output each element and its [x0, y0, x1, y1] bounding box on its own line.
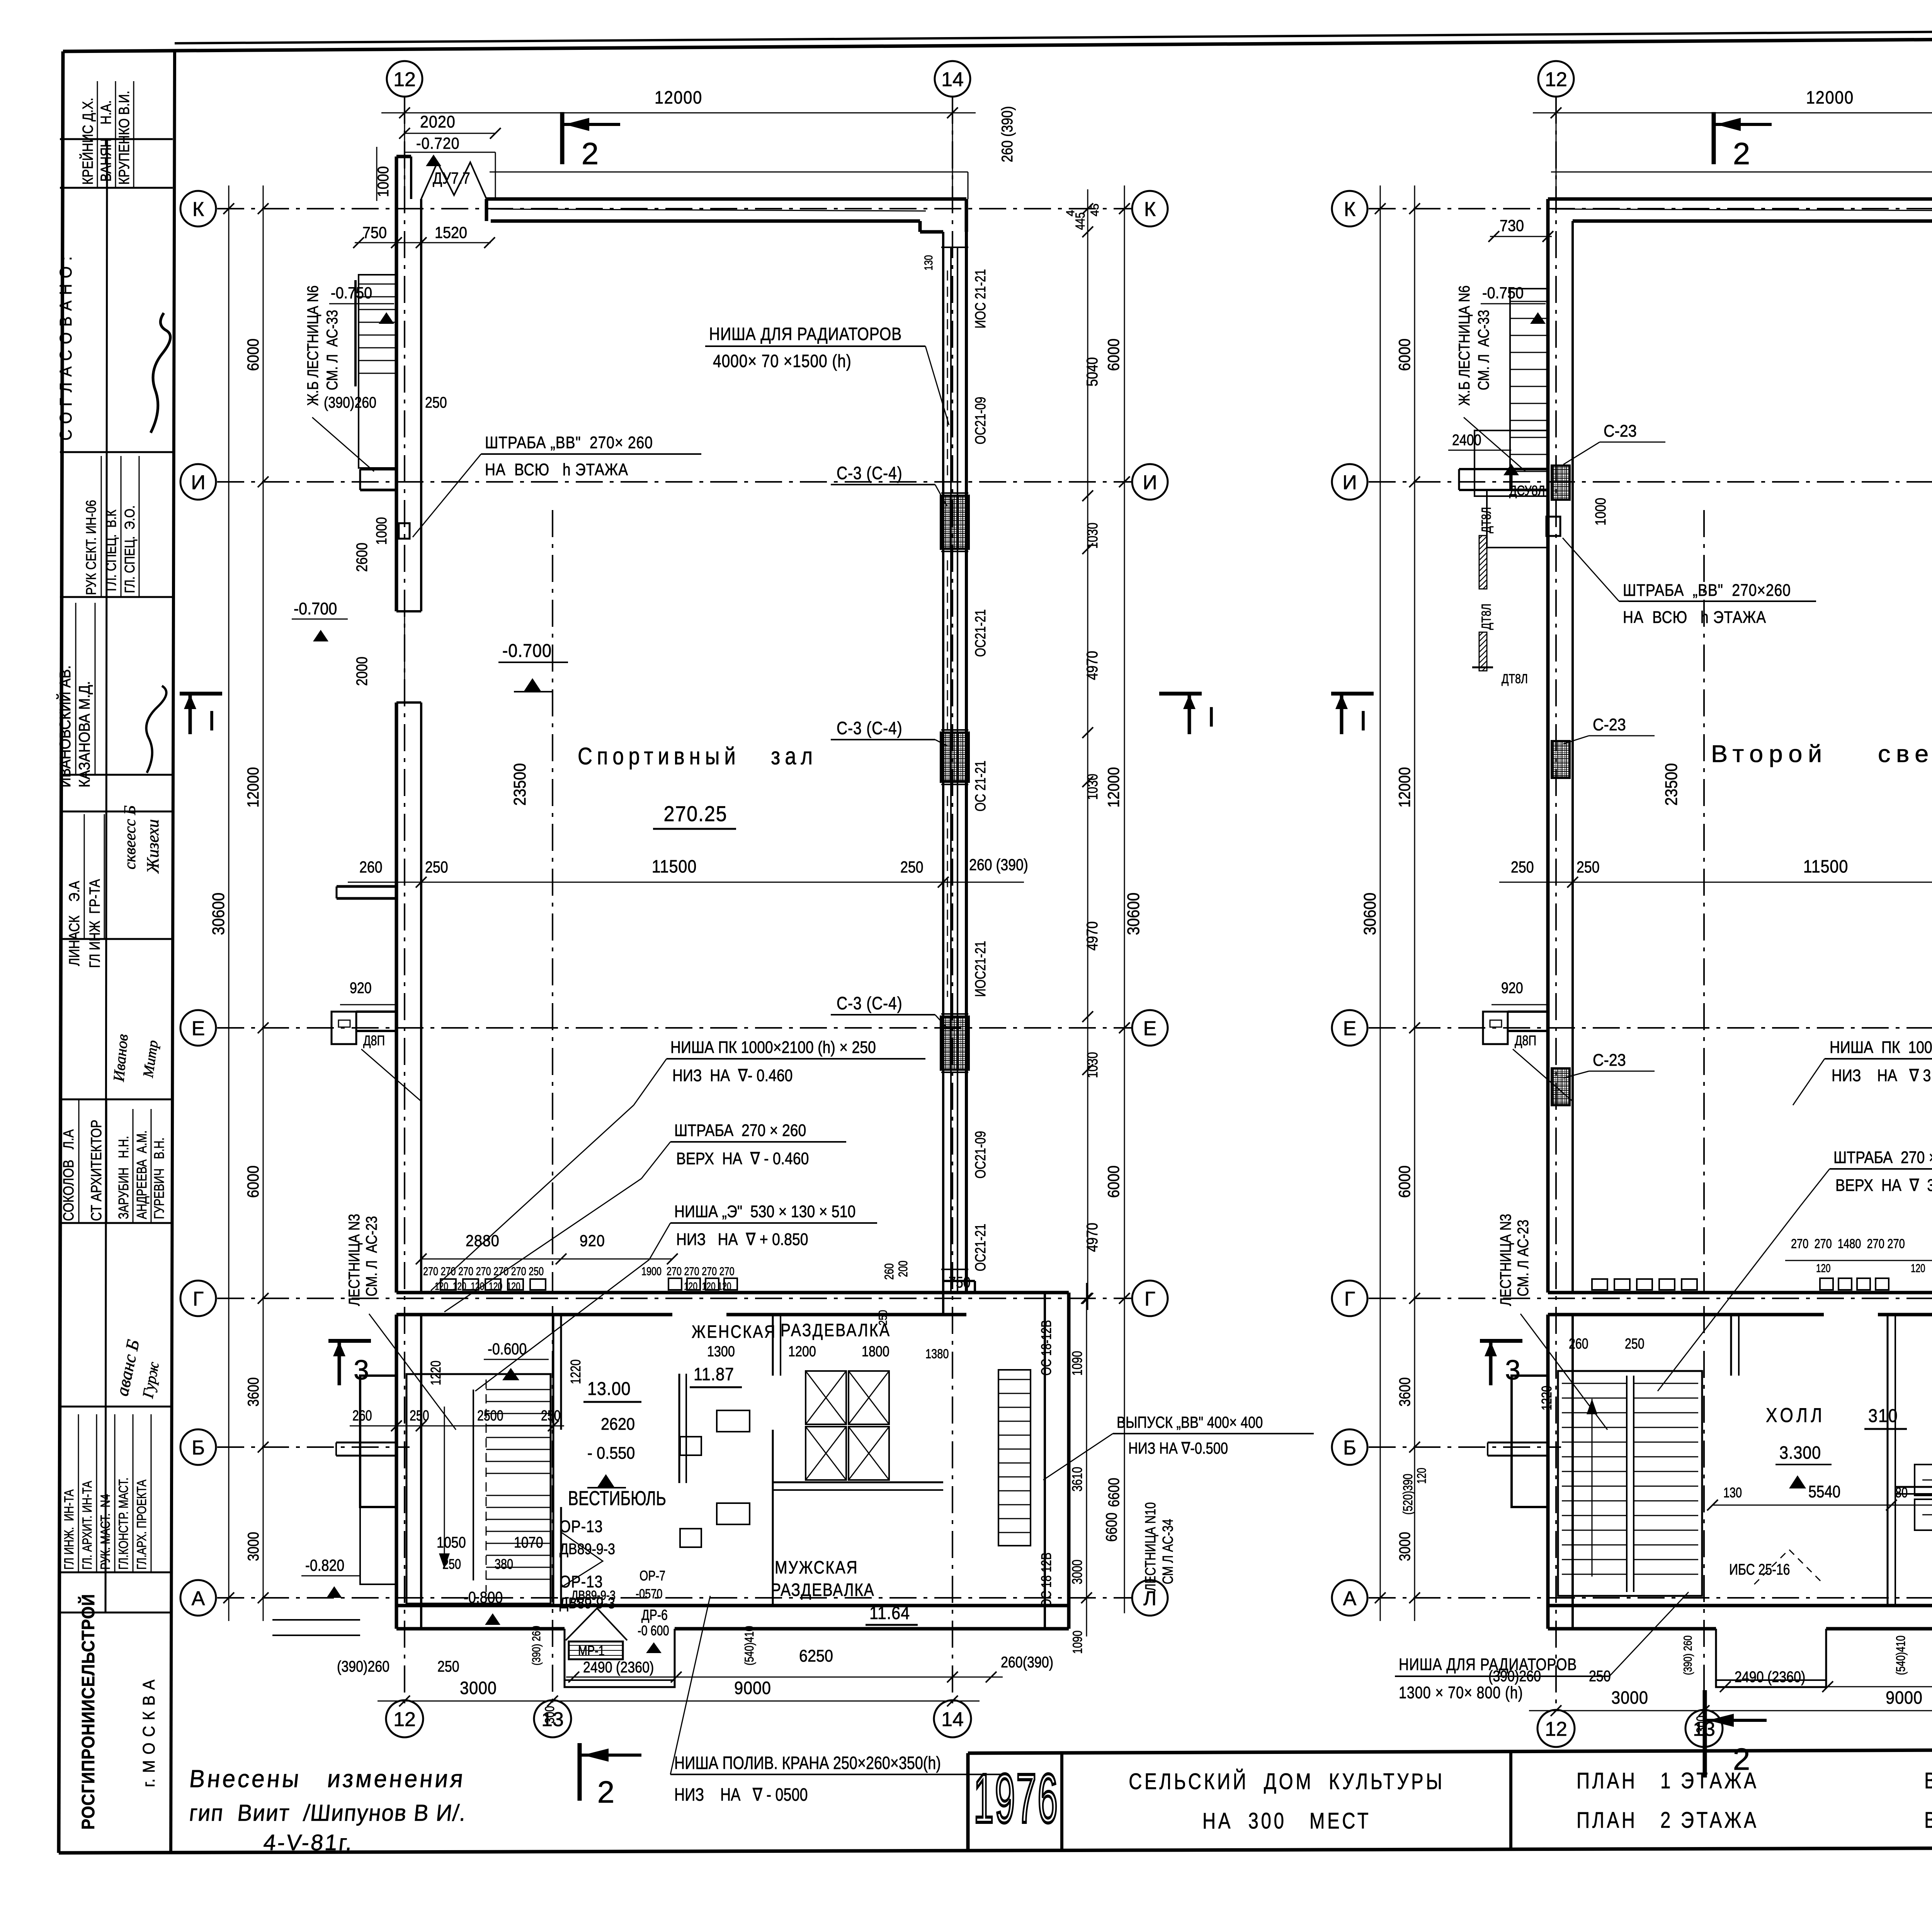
- svg-text:И: И: [1342, 471, 1357, 494]
- sidebar signature squiggle 1: [151, 313, 170, 433]
- svg-text:1030: 1030: [1085, 1052, 1101, 1078]
- svg-text:В: В: [1924, 1808, 1932, 1833]
- svg-text:2: 2: [1733, 136, 1750, 171]
- axis circles left column K I E G B A: [180, 191, 216, 226]
- right side lower segment dims: [1086, 1283, 1087, 1636]
- axis line I (horizontal dash-dot): [1369, 481, 1932, 483]
- svg-text:ВАНЯН Н.А.: ВАНЯН Н.А.: [98, 100, 114, 182]
- axis line 13 (vertical dash-dot): [1703, 1306, 1705, 1709]
- svg-text:23500: 23500: [1662, 763, 1680, 806]
- stairwell lower-left floor2: [1558, 1371, 1702, 1596]
- svg-text:I: I: [1207, 702, 1215, 733]
- svg-text:ГЛ ИНЖ ГР-ТА: ГЛ ИНЖ ГР-ТА: [87, 879, 103, 968]
- svg-text:30600: 30600: [209, 893, 228, 935]
- svg-text:730: 730: [1500, 217, 1524, 235]
- svg-text:1090: 1090: [1069, 1351, 1085, 1376]
- vent block squares row in G wall: [1592, 1279, 1607, 1290]
- wall stub at axis B: [336, 1442, 396, 1444]
- svg-text:3000: 3000: [1611, 1688, 1648, 1708]
- svg-text:45: 45: [1088, 204, 1101, 216]
- svg-text:3000: 3000: [1396, 1532, 1413, 1561]
- svg-text:1030: 1030: [1085, 522, 1101, 549]
- svg-text:ЗАРУБИН Н.Н.: ЗАРУБИН Н.Н.: [116, 1136, 131, 1219]
- stairwell lower-left floor1: [406, 1374, 551, 1604]
- svg-text:1050: 1050: [437, 1533, 466, 1551]
- svg-text:-0.750: -0.750: [331, 284, 372, 302]
- parapet outline above wall: [405, 152, 495, 153]
- svg-text:ВЕСТИБЮЛЬ: ВЕСТИБЮЛЬ: [568, 1487, 666, 1510]
- svg-text:С-3 (С-4): С-3 (С-4): [837, 993, 903, 1014]
- bottom dimension chain: [1529, 1710, 1932, 1711]
- svg-text:12: 12: [393, 68, 416, 91]
- axis line K (horizontal dash-dot): [1369, 208, 1932, 209]
- svg-text:1220: 1220: [1539, 1386, 1554, 1410]
- C-23 pier lower: [1552, 1068, 1570, 1105]
- hall partition right of stair: [1730, 1315, 1732, 1376]
- stair well top-left (zh.b. lestnitsa N6): [359, 275, 396, 468]
- svg-text:ЛЕСТНИЦА N10: ЛЕСТНИЦА N10: [1143, 1502, 1159, 1591]
- svg-text:Г: Г: [193, 1288, 204, 1310]
- axis line G (horizontal dash-dot): [217, 1298, 1131, 1299]
- svg-text:С-23: С-23: [1593, 1050, 1626, 1069]
- svg-text:Д8П: Д8П: [1515, 1032, 1536, 1048]
- mid dimension chain 11500: [348, 882, 1024, 883]
- C-23 pier upper at I: [1552, 466, 1570, 500]
- svg-text:ВЕРХ НА ∇ - 0.460: ВЕРХ НА ∇ - 0.460: [676, 1149, 809, 1168]
- svg-text:-0.720: -0.720: [416, 134, 460, 152]
- lower block bottom wall (axis A): [1548, 1604, 1932, 1607]
- svg-text:310: 310: [1868, 1405, 1898, 1426]
- sidebar cursive signatures block 3: [121, 805, 139, 869]
- svg-text:СТ АРХИТЕКТОР: СТ АРХИТЕКТОР: [88, 1120, 105, 1221]
- svg-text:14: 14: [941, 68, 964, 91]
- left side axis dimension chain (segments): [1414, 185, 1415, 1621]
- svg-text:НИША ПК 1000×2100 (h) × 250: НИША ПК 1000×2100 (h) × 250: [670, 1038, 876, 1057]
- svg-text:12000: 12000: [244, 767, 262, 808]
- partition hall/rooms floor2: [1887, 1315, 1889, 1606]
- stair arrow floor2: [1592, 1399, 1593, 1577]
- svg-text:260 (390): 260 (390): [998, 106, 1015, 162]
- svg-text:СОКОЛОВ Л.А: СОКОЛОВ Л.А: [61, 1129, 77, 1221]
- svg-text:Второй свет: Второй свет: [1711, 741, 1932, 767]
- svg-text:6000: 6000: [1396, 338, 1413, 371]
- svg-text:11500: 11500: [652, 857, 697, 877]
- left exterior wall lower segment: [395, 703, 398, 1293]
- svg-text:НИША ДЛЯ РАДИАТОРОВ: НИША ДЛЯ РАДИАТОРОВ: [709, 324, 902, 344]
- door swing big triangle in tambour: [566, 1608, 627, 1640]
- svg-text:2500: 2500: [477, 1408, 503, 1424]
- svg-text:ЛИНАСК Э.А: ЛИНАСК Э.А: [66, 881, 83, 966]
- svg-text:250: 250: [425, 858, 448, 876]
- svg-text:1000: 1000: [375, 166, 392, 197]
- svg-text:-0.820: -0.820: [305, 1556, 344, 1574]
- svg-text:гип Виит /Шипунов В И/.: гип Виит /Шипунов В И/.: [188, 1800, 468, 1826]
- top exterior wall (axis K): [1548, 197, 1932, 201]
- stair center divider floor2: [1626, 1376, 1628, 1592]
- stair mid landing divider: [473, 1390, 474, 1580]
- svg-text:920: 920: [350, 979, 372, 996]
- axis circle 12 bottom: [1537, 1710, 1575, 1747]
- svg-text:ХОЛЛ: ХОЛЛ: [1766, 1404, 1825, 1427]
- svg-text:СМ. Л АС-23: СМ. Л АС-23: [362, 1216, 380, 1296]
- svg-text:ОР-7: ОР-7: [639, 1568, 665, 1584]
- pier at axis E (hatched): [941, 1017, 969, 1070]
- svg-text:КРЕЙНИС Д.Х.: КРЕЙНИС Д.Х.: [80, 98, 96, 185]
- sheet top border second line: [175, 29, 1932, 43]
- svg-text:1030: 1030: [1085, 774, 1101, 800]
- svg-text:920: 920: [580, 1232, 605, 1250]
- section mark 2 top: [1712, 112, 1716, 164]
- wall stub at axis B: [1488, 1442, 1548, 1444]
- svg-text:6250: 6250: [799, 1646, 833, 1665]
- svg-text:РУК. МАСТ. N4: РУК. МАСТ. N4: [98, 1494, 113, 1570]
- porch walk lines left: [272, 1619, 360, 1621]
- svg-text:250: 250: [900, 858, 923, 876]
- svg-text:4970: 4970: [1083, 651, 1100, 680]
- sidebar cursive signatures cell extra: [110, 1033, 131, 1083]
- svg-text:120: 120: [1911, 1262, 1925, 1275]
- svg-text:23500: 23500: [510, 763, 529, 806]
- axis circle 13 bottom: [1685, 1710, 1723, 1747]
- svg-text:3000: 3000: [244, 1532, 262, 1561]
- svg-text:ОС 18-12В: ОС 18-12В: [1038, 1320, 1054, 1376]
- stair landing box with level 2400: [1475, 430, 1548, 496]
- svg-text:30600: 30600: [1360, 893, 1379, 935]
- svg-text:РАЗДЕВАЛКА: РАЗДЕВАЛКА: [781, 1320, 891, 1340]
- door DT8L hatched blocks outside left wall: [1479, 536, 1487, 589]
- svg-text:120: 120: [1415, 1468, 1429, 1484]
- svg-text:120 120 120: 120 120 120: [684, 1281, 731, 1293]
- svg-text:г. М О С К В А: г. М О С К В А: [139, 1679, 158, 1787]
- dimension 12000 top chain: [1533, 112, 1932, 114]
- svg-text:270 270 1480 270 270: 270 270 1480 270 270: [1791, 1236, 1905, 1251]
- svg-text:НА ВСЮ h ЭТАЖА: НА ВСЮ h ЭТАЖА: [1623, 607, 1766, 627]
- svg-text:КАЗАНОВА М.Д.: КАЗАНОВА М.Д.: [76, 681, 93, 788]
- dimension 2020 with level -0.720: [405, 133, 495, 134]
- svg-text:3610: 3610: [1069, 1467, 1085, 1492]
- door swing triangles in vestibule: [561, 1532, 603, 1587]
- svg-text:ШТРАБА 270 × 260: ШТРАБА 270 × 260: [1833, 1148, 1932, 1167]
- wall stub second left lower: [337, 885, 396, 888]
- axis line A (horizontal dash-dot): [217, 1597, 1131, 1599]
- stair flight rungs lower: [486, 1495, 551, 1496]
- svg-text:9000: 9000: [734, 1678, 771, 1698]
- svg-text:В: В: [1924, 1769, 1932, 1794]
- svg-text:С О Г Л А С О В А Н О :: С О Г Л А С О В А Н О :: [56, 256, 75, 441]
- svg-text:СМ. Л АС-33: СМ. Л АС-33: [323, 310, 340, 390]
- svg-text:1070: 1070: [514, 1533, 543, 1551]
- C-23 pier mid: [1552, 741, 1570, 778]
- axis circle 12 top: [387, 61, 422, 97]
- section mark 2 bottom: [1703, 1690, 1707, 1778]
- wall stubs at I row floor2: [1459, 468, 1548, 470]
- svg-text:МУЖСКАЯ: МУЖСКАЯ: [775, 1558, 858, 1578]
- svg-text:1200: 1200: [788, 1344, 816, 1360]
- svg-text:ДР-6: ДР-6: [641, 1607, 668, 1623]
- svg-text:6600: 6600: [1105, 1478, 1122, 1507]
- svg-text:(390) 260: (390) 260: [529, 1626, 543, 1665]
- svg-text:6000: 6000: [1396, 1165, 1413, 1198]
- svg-text:ОС 21-21: ОС 21-21: [973, 760, 989, 811]
- svg-text:12000: 12000: [1396, 767, 1413, 808]
- svg-text:НИША ПК 1000× 2100 (h)×260: НИША ПК 1000× 2100 (h)×260: [1830, 1038, 1932, 1057]
- axis 13 full height line: [1703, 510, 1705, 1293]
- svg-text:ИОС 21-21: ИОС 21-21: [973, 269, 989, 328]
- svg-text:ИБС 25-16: ИБС 25-16: [1729, 1561, 1790, 1578]
- svg-text:ЛЕСТНИЦА N3: ЛЕСТНИЦА N3: [1497, 1214, 1514, 1306]
- svg-text:С-3 (С-4): С-3 (С-4): [837, 463, 903, 483]
- svg-text:Б: Б: [1343, 1437, 1356, 1459]
- svg-text:12000: 12000: [1105, 767, 1122, 808]
- svg-text:-0570: -0570: [636, 1586, 663, 1601]
- left wall end cap at opening: [396, 610, 421, 612]
- svg-text:920: 920: [1501, 979, 1523, 996]
- svg-text:(390)260: (390)260: [337, 1657, 389, 1675]
- svg-text:I: I: [1359, 706, 1367, 737]
- svg-text:4: 4: [1064, 210, 1077, 216]
- svg-text:ГЛ ИНЖ. ИН-ТА: ГЛ ИНЖ. ИН-ТА: [61, 1489, 77, 1570]
- left side axis dimension chain (segments): [263, 185, 264, 1621]
- right wall of G-A connects to window wall: [966, 1291, 1069, 1294]
- door symbol IBS 25-16: [1754, 1550, 1824, 1584]
- revision note below left plan: [188, 1765, 466, 1793]
- svg-text:14: 14: [941, 1708, 964, 1731]
- svg-text:5540: 5540: [1808, 1482, 1840, 1501]
- lower block bottom wall (axis A): [396, 1604, 1069, 1607]
- svg-text:Д8П: Д8П: [363, 1032, 385, 1048]
- svg-text:9000: 9000: [1886, 1688, 1923, 1708]
- svg-text:-0.750: -0.750: [1482, 284, 1524, 302]
- svg-text:2400: 2400: [1452, 431, 1481, 448]
- svg-text:Внесены изменения: Внесены изменения: [188, 1765, 466, 1793]
- svg-text:2: 2: [1733, 1742, 1750, 1776]
- svg-text:260(390): 260(390): [1001, 1653, 1053, 1670]
- axis line 14 (vertical dash-dot): [952, 97, 953, 1709]
- svg-text:Г: Г: [1145, 1288, 1155, 1310]
- svg-text:НИША „Э" 530 × 130 × 510: НИША „Э" 530 × 130 × 510: [674, 1202, 855, 1221]
- svg-text:НА ВСЮ h ЭТАЖА: НА ВСЮ h ЭТАЖА: [485, 460, 628, 479]
- svg-text:250: 250: [442, 1556, 461, 1572]
- lower block left wall: [395, 1315, 398, 1629]
- svg-text:380: 380: [495, 1556, 513, 1572]
- svg-text:Е: Е: [192, 1017, 205, 1040]
- svg-text:-0.800: -0.800: [464, 1589, 503, 1606]
- svg-text:-0.700: -0.700: [502, 640, 552, 661]
- axis line I (horizontal dash-dot): [217, 481, 1131, 483]
- svg-text:1000: 1000: [374, 517, 390, 545]
- svg-text:I: I: [208, 706, 216, 737]
- axis circle 14 bottom: [934, 1700, 971, 1737]
- tambour extension below bottom wall: [1716, 1629, 1826, 1687]
- axis line A (horizontal dash-dot): [1369, 1597, 1932, 1599]
- left side total dimension 30600: [228, 185, 230, 1621]
- svg-text:3600: 3600: [244, 1377, 262, 1407]
- dimension 750 1520 at top left: [355, 242, 491, 243]
- partition vestibule/lockers: [772, 1315, 774, 1376]
- svg-text:(540)410: (540)410: [1894, 1636, 1908, 1675]
- svg-text:С-3 (С-4): С-3 (С-4): [837, 718, 903, 738]
- svg-text:1380: 1380: [925, 1346, 949, 1361]
- svg-text:НИЗ НА ∇ 3.390: НИЗ НА ∇ 3.390: [1832, 1066, 1932, 1085]
- svg-text:ЖЕНСКАЯ: ЖЕНСКАЯ: [692, 1322, 776, 1342]
- svg-text:1300 × 70× 800 (h): 1300 × 70× 800 (h): [1399, 1683, 1523, 1702]
- section mark 2 top: [560, 112, 565, 164]
- stair flight edge dashed: [486, 1379, 487, 1592]
- svg-text:260 (390): 260 (390): [969, 856, 1028, 874]
- axis line E (horizontal dash-dot): [217, 1027, 1131, 1029]
- svg-text:К: К: [1144, 198, 1156, 221]
- left side total dimension 30600: [1380, 185, 1381, 1621]
- section mark 3 left: [1480, 1339, 1522, 1343]
- door D97.7 zigzag at top-left: [421, 162, 486, 199]
- right side window segment chain: [1087, 189, 1088, 1310]
- section mark 2 bottom: [578, 1743, 582, 1801]
- svg-text:120 120 120 120 120: 120 120 120 120 120: [435, 1281, 520, 1293]
- svg-text:ОС21-21: ОС21-21: [973, 1224, 989, 1271]
- svg-text:Г: Г: [1344, 1288, 1355, 1310]
- svg-text:НИЗ НА ∇- 0.460: НИЗ НА ∇- 0.460: [672, 1066, 793, 1085]
- svg-text:2: 2: [597, 1775, 615, 1809]
- svg-text:30600: 30600: [1124, 893, 1143, 935]
- svg-text:ГЛ. СПЕЦ. Э.О.: ГЛ. СПЕЦ. Э.О.: [122, 505, 138, 593]
- svg-text:4-V-81г.: 4-V-81г.: [262, 1830, 355, 1855]
- svg-text:-0 600: -0 600: [638, 1623, 669, 1638]
- svg-text:11.87: 11.87: [694, 1364, 734, 1385]
- closet boxes with plus: [1915, 1465, 1932, 1495]
- svg-text:РАЗДЕВАЛКА: РАЗДЕВАЛКА: [771, 1580, 874, 1600]
- svg-text:260: 260: [1569, 1336, 1588, 1352]
- svg-text:5040: 5040: [1083, 357, 1100, 386]
- svg-text:6000: 6000: [244, 1165, 262, 1198]
- svg-text:СЕЛЬСКИЙ ДОМ КУЛЬТУРЫ: СЕЛЬСКИЙ ДОМ КУЛЬТУРЫ: [1129, 1768, 1445, 1794]
- sheet outer frame left border: [59, 51, 63, 1853]
- svg-text:ШТРАБА 270 × 260: ШТРАБА 270 × 260: [674, 1121, 806, 1140]
- mid dimension chain hall 5540: [1713, 1505, 1932, 1506]
- stair rungs left flight: [1562, 1383, 1627, 1384]
- svg-text:ШТРАБА „ВВ" 270× 260: ШТРАБА „ВВ" 270× 260: [485, 433, 653, 452]
- svg-text:1800: 1800: [862, 1344, 889, 1360]
- pier at axis I (hatched): [941, 496, 969, 549]
- left end step of top wall: [485, 199, 488, 221]
- horizontal partition lockers: [773, 1482, 943, 1483]
- svg-text:ДУ7.7: ДУ7.7: [433, 169, 470, 187]
- svg-text:ОС21-09: ОС21-09: [973, 1131, 989, 1179]
- lower block left wall: [1546, 1315, 1550, 1629]
- sidebar horizontal rule lines: [60, 138, 173, 140]
- svg-text:ОС21-09: ОС21-09: [973, 397, 989, 444]
- wc booth partition in vestibule: [679, 1374, 680, 1483]
- stair well top-left (zh.b. lestnitsa N6): [1510, 289, 1548, 490]
- svg-text:750: 750: [949, 1273, 971, 1291]
- svg-text:3: 3: [354, 1355, 369, 1386]
- svg-text:130: 130: [1723, 1485, 1742, 1500]
- axis line G (horizontal dash-dot): [1369, 1298, 1932, 1299]
- bottom sub dimension chain: [1718, 1686, 1932, 1687]
- axis circle 14 top: [935, 61, 970, 97]
- svg-text:3: 3: [1505, 1355, 1520, 1386]
- svg-text:1220: 1220: [568, 1359, 583, 1384]
- svg-text:(540)410: (540)410: [743, 1626, 756, 1665]
- svg-text:(390) 260: (390) 260: [1681, 1635, 1694, 1675]
- svg-text:Е: Е: [1343, 1017, 1357, 1040]
- wall stub at axis E with door box D8P: [356, 1010, 396, 1013]
- svg-text:11.64: 11.64: [869, 1603, 910, 1623]
- svg-text:АНДРЕЕВА А.М.: АНДРЕЕВА А.М.: [134, 1130, 150, 1219]
- section mark 1 left (gutter): [180, 692, 222, 696]
- title block outline: [968, 1748, 1932, 1753]
- sidebar cursive signatures block 4: [112, 1338, 143, 1398]
- axis line 12 (vertical dash-dot): [404, 97, 405, 1709]
- svg-text:250: 250: [1625, 1336, 1645, 1352]
- svg-text:1520: 1520: [435, 224, 467, 242]
- axis line 12 (vertical dash-dot): [1555, 97, 1557, 1709]
- left exterior wall (axis 12 wall) upper segment: [395, 156, 398, 611]
- svg-text:12000: 12000: [655, 88, 702, 108]
- svg-text:250: 250: [437, 1657, 459, 1675]
- svg-text:И: И: [1143, 471, 1157, 494]
- window niche dashed line: [947, 270, 948, 479]
- left exterior wall closed corner floor2: [1546, 199, 1550, 1293]
- svg-text:ГЛ.АРХ. ПРОЕКТА: ГЛ.АРХ. ПРОЕКТА: [134, 1480, 149, 1570]
- svg-text:12: 12: [393, 1708, 416, 1731]
- svg-text:2490 (2360): 2490 (2360): [1735, 1668, 1805, 1685]
- svg-text:СМ. Л АС-33: СМ. Л АС-33: [1475, 310, 1492, 390]
- svg-text:сквеесс Б: сквеесс Б: [121, 805, 139, 869]
- svg-text:ГЛ. СПЕЦ. В.К: ГЛ. СПЕЦ. В.К: [104, 509, 119, 591]
- svg-text:ДТ8Л: ДТ8Л: [1502, 671, 1528, 686]
- svg-text:ПЛАН 2 ЭТАЖА: ПЛАН 2 ЭТАЖА: [1577, 1808, 1759, 1833]
- partition between stair and vestibule: [553, 1315, 554, 1606]
- wall stub at axis I extending left: [1512, 468, 1548, 471]
- sidebar inner vertical divider: [105, 139, 107, 1613]
- svg-text:2600: 2600: [353, 543, 370, 572]
- axis line 13 (vertical dash-dot): [552, 1306, 553, 1709]
- svg-text:2000: 2000: [353, 657, 370, 686]
- ladder N10 right side: [998, 1370, 1031, 1546]
- svg-text:Б: Б: [192, 1437, 205, 1459]
- svg-text:А: А: [1343, 1587, 1357, 1610]
- thin outer (390) line above top wall: [1551, 172, 1932, 173]
- svg-text:ИОС21-21: ИОС21-21: [973, 941, 989, 997]
- svg-text:ГУРЕВИЧ В.Н.: ГУРЕВИЧ В.Н.: [151, 1138, 167, 1219]
- window end tick marks: [941, 247, 968, 248]
- svg-text:-0.700: -0.700: [294, 599, 337, 618]
- stair arrow line: [444, 1407, 445, 1569]
- svg-text:(390)260: (390)260: [324, 393, 376, 411]
- svg-text:ДСУ8Л: ДСУ8Л: [1509, 483, 1545, 498]
- stair flight rungs upper: [486, 1389, 551, 1390]
- lower block stair west protrusion wall: [1512, 1376, 1548, 1507]
- svg-text:270.25: 270.25: [664, 802, 728, 826]
- thin outer (390) line above top wall: [490, 172, 968, 173]
- svg-text:6000: 6000: [1105, 338, 1122, 371]
- bottom dimension chain: [378, 1701, 980, 1702]
- svg-text:2490 (2360): 2490 (2360): [583, 1658, 654, 1675]
- svg-text:4000× 70 ×1500 (h): 4000× 70 ×1500 (h): [713, 351, 852, 371]
- dimension 12000 top chain: [381, 112, 976, 114]
- svg-text:- 0.550: - 0.550: [587, 1443, 635, 1462]
- svg-text:Ж.Б ЛЕСТНИЦА N6: Ж.Б ЛЕСТНИЦА N6: [304, 286, 321, 406]
- svg-text:200: 200: [896, 1260, 910, 1277]
- stair landing box lower: [1487, 490, 1548, 548]
- svg-text:НА 300 МЕСТ: НА 300 МЕСТ: [1202, 1809, 1371, 1834]
- svg-text:К: К: [1344, 198, 1355, 221]
- partition doctor/instructor: [1895, 1486, 1932, 1488]
- bottom sub dimension chain: [566, 1677, 1003, 1678]
- svg-text:6600: 6600: [1102, 1512, 1120, 1542]
- svg-text:К: К: [192, 198, 204, 221]
- mid dimension chain 11500: [1499, 882, 1932, 883]
